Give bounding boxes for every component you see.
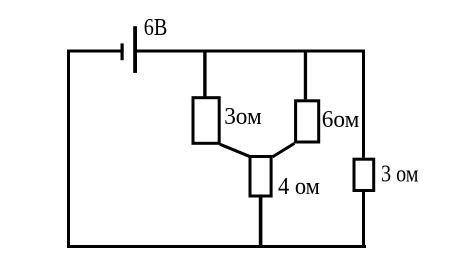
svg-text:6ом: 6ом — [322, 107, 360, 133]
wire lead from top rail to R2 — [304, 52, 307, 99]
wire lead from R3 bottom to bottom rail — [259, 196, 263, 246]
battery BT1 short plate (negative) — [121, 43, 124, 60]
resistor R2 6ом — [296, 101, 319, 142]
wire top-right segment (battery positive to top-right corner) — [137, 50, 365, 53]
svg-text:3 ом: 3 ом — [381, 162, 419, 188]
resistor R4 3 ом — [354, 159, 374, 190]
wire bottom rail — [67, 245, 366, 248]
wire lead from top rail to R1 — [203, 52, 206, 96]
wire top-left segment (battery negative to left rail) — [67, 50, 121, 53]
wire diagonal R2 bottom to R3 top-right — [273, 143, 295, 157]
wire right rail upper segment — [362, 50, 365, 158]
wire right rail lower segment — [362, 192, 365, 248]
wire diagonal R1 bottom to R3 top-left — [220, 144, 251, 157]
resistor R1 3ом — [193, 98, 219, 144]
battery BT1 long plate (positive) — [133, 26, 137, 73]
wire left rail — [67, 50, 70, 249]
resistor R3 4 ом — [250, 157, 271, 197]
svg-text:3ом: 3ом — [224, 104, 262, 130]
svg-text:4 ом: 4 ом — [278, 174, 320, 200]
svg-text:6В: 6В — [144, 15, 168, 41]
